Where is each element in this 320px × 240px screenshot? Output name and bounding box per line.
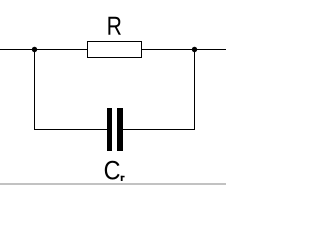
wire (bottom, left segment to capacitor) xyxy=(34,129,107,130)
label R (resistor value) xyxy=(108,17,121,35)
wire (bottom, right segment from capacitor) xyxy=(122,129,195,130)
wire (left vertical branch) xyxy=(34,49,35,130)
wire (top rail, right segment from resistor) xyxy=(141,49,226,50)
node (right junction) xyxy=(192,47,197,52)
capacitor Cr (right plate) xyxy=(117,108,123,151)
wire (top rail, left segment to resistor) xyxy=(0,49,88,50)
resistor R (body) xyxy=(88,42,142,58)
capacitor Cr (left plate) xyxy=(107,108,112,151)
label Cr (capacitor value) xyxy=(105,161,125,181)
wire (right vertical branch) xyxy=(194,49,195,130)
node (left junction) xyxy=(32,47,37,52)
